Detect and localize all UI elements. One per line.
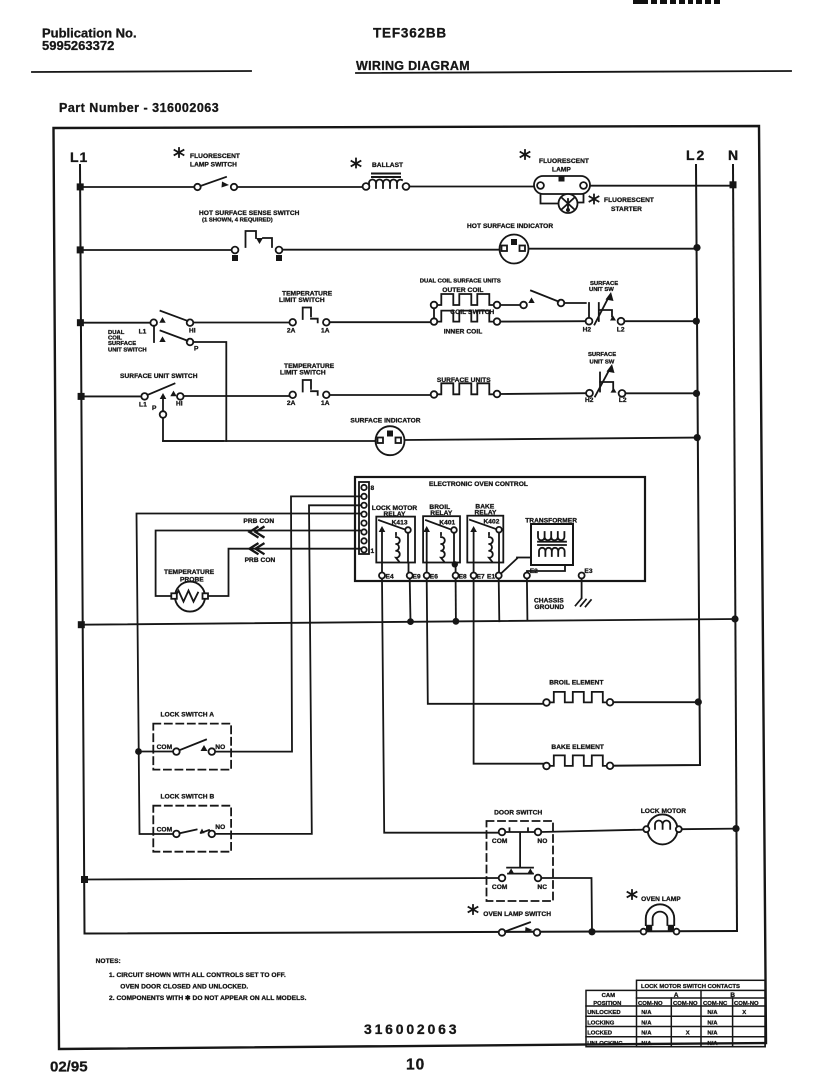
svg-text:BALLAST: BALLAST xyxy=(372,162,403,169)
svg-text:2A: 2A xyxy=(287,328,296,335)
svg-text:HI: HI xyxy=(176,401,183,408)
svg-text:COM: COM xyxy=(157,827,173,834)
svg-text:2. COMPONENTS WITH ✱ DO NOT AP: 2. COMPONENTS WITH ✱ DO NOT APPEAR ON AL… xyxy=(109,994,307,1002)
lock switch B xyxy=(153,794,231,852)
wire pin1 PRB CON lower to probe xyxy=(208,549,361,596)
svg-text:L2: L2 xyxy=(686,147,706,163)
wire E1 stub to bus xyxy=(498,579,501,622)
svg-text:UNIT SW: UNIT SW xyxy=(590,360,615,366)
wire L1 bus vertical xyxy=(80,165,737,934)
lock motor M1 xyxy=(641,808,736,845)
EOC connector strip P1 xyxy=(359,482,369,554)
wire row1 fluorescent circuit xyxy=(80,186,733,187)
svg-text:UNLOCKED: UNLOCKED xyxy=(587,1010,620,1016)
outer coil element xyxy=(437,294,494,305)
svg-text:N/A: N/A xyxy=(641,1020,652,1026)
wire door NC to bottom bus xyxy=(541,878,592,932)
svg-text:OUTER COIL: OUTER COIL xyxy=(442,287,483,294)
svg-text:COM-NO: COM-NO xyxy=(673,1001,698,1007)
svg-text:UNLOCKING: UNLOCKING xyxy=(587,1041,623,1047)
svg-text:P: P xyxy=(194,346,199,353)
svg-text:X: X xyxy=(742,1010,746,1016)
wire E7 down to bake element xyxy=(474,579,547,764)
svg-text:E3: E3 xyxy=(584,568,592,575)
wire E9 stub to bus xyxy=(409,579,412,622)
transformer T2 xyxy=(517,518,577,566)
svg-text:NC: NC xyxy=(537,884,547,891)
svg-text:SURFACE INDICATOR: SURFACE INDICATOR xyxy=(350,418,420,425)
bake element xyxy=(543,744,613,769)
junction dots L1 xyxy=(77,183,88,883)
svg-text:UNIT SW: UNIT SW xyxy=(589,287,614,293)
svg-text:N/A: N/A xyxy=(707,1010,718,1016)
svg-text:OVEN DOOR CLOSED AND UNLOCKED.: OVEN DOOR CLOSED AND UNLOCKED. xyxy=(120,984,248,991)
svg-text:L1: L1 xyxy=(70,149,88,165)
wire E8 stub to bus xyxy=(453,618,460,625)
broil relay K401 xyxy=(423,504,460,573)
oven lamp switch xyxy=(469,905,552,936)
svg-text:10: 10 xyxy=(406,1057,425,1074)
svg-text:FLUORESCENT: FLUORESCENT xyxy=(539,158,589,165)
surface unit switch (row4) xyxy=(120,373,198,418)
svg-text:E1: E1 xyxy=(487,574,495,581)
junction dots L2 xyxy=(693,244,702,706)
dual coil surface units heater elements xyxy=(420,279,565,336)
lock motor relay K413 xyxy=(372,505,418,573)
PRB CON chevrons lower xyxy=(250,544,264,554)
svg-text:COM: COM xyxy=(492,884,508,891)
svg-text:L2: L2 xyxy=(617,327,625,334)
svg-text:P: P xyxy=(152,405,157,412)
svg-text:E4: E4 xyxy=(386,574,394,581)
electronic oven control box U1 xyxy=(355,477,645,581)
svg-text:PRB CON: PRB CON xyxy=(243,518,274,525)
junction dot E9 bus xyxy=(407,618,414,625)
svg-text:HOT SURFACE SENSE SWITCH: HOT SURFACE SENSE SWITCH xyxy=(199,210,300,217)
surface indicator lamp xyxy=(350,418,420,456)
svg-text:H2: H2 xyxy=(583,327,592,334)
wire pin5 down left side to lock switch B COM xyxy=(137,514,362,835)
wire E2 to transformer xyxy=(527,565,565,573)
svg-text:1. CIRCUIT SHOWN WITH ALL CONT: 1. CIRCUIT SHOWN WITH ALL CONTROLS SET T… xyxy=(109,972,286,979)
svg-text:N/A: N/A xyxy=(707,1041,718,1047)
svg-text:TEF362BB: TEF362BB xyxy=(373,26,447,41)
svg-text:N/A: N/A xyxy=(707,1020,718,1026)
svg-text:UNIT SWITCH: UNIT SWITCH xyxy=(108,348,147,354)
svg-text:B: B xyxy=(730,992,735,999)
svg-text:02/95: 02/95 xyxy=(50,1059,88,1076)
fluorescent starter xyxy=(559,194,655,213)
wire E2 stub to bus xyxy=(526,579,529,620)
broil element xyxy=(543,680,695,706)
door switch xyxy=(487,810,554,901)
svg-text:STARTER: STARTER xyxy=(611,206,642,213)
junction dot bottom bus xyxy=(588,928,595,935)
svg-text:HI: HI xyxy=(189,328,196,335)
bake relay K402 xyxy=(467,504,503,573)
svg-text:E6: E6 xyxy=(430,574,438,581)
svg-text:PRB CON: PRB CON xyxy=(245,557,276,564)
PRB CON chevrons upper xyxy=(250,527,264,537)
svg-text:LIMIT SWITCH: LIMIT SWITCH xyxy=(279,297,325,304)
svg-text:FLUORESCENT: FLUORESCENT xyxy=(604,197,654,204)
svg-text:E9: E9 xyxy=(413,574,421,581)
svg-text:NO: NO xyxy=(215,824,225,831)
lock motor switch contacts table xyxy=(586,980,765,1047)
svg-text:COM: COM xyxy=(492,838,508,845)
svg-text:GROUND: GROUND xyxy=(535,604,565,611)
svg-text:LOCK MOTOR SWITCH CONTACTS: LOCK MOTOR SWITCH CONTACTS xyxy=(641,984,740,990)
page border xyxy=(54,126,767,1049)
svg-text:N/A: N/A xyxy=(641,1041,652,1047)
header rule left xyxy=(32,71,251,72)
svg-text:FLUORESCENT: FLUORESCENT xyxy=(190,153,240,160)
svg-text:E8: E8 xyxy=(459,574,467,581)
svg-text:COM-NO: COM-NO xyxy=(638,1001,663,1007)
svg-text:E7: E7 xyxy=(477,574,485,581)
svg-text:LAMP SWITCH: LAMP SWITCH xyxy=(190,162,237,169)
svg-text:OVEN LAMP: OVEN LAMP xyxy=(641,896,681,903)
svg-text:SURFACE: SURFACE xyxy=(588,352,616,358)
svg-text:H2: H2 xyxy=(585,397,594,404)
wire row3 dual coil xyxy=(80,321,696,323)
svg-text:LIMIT SWITCH: LIMIT SWITCH xyxy=(280,370,326,377)
svg-text:HOT SURFACE INDICATOR: HOT SURFACE INDICATOR xyxy=(467,223,553,230)
svg-text:(1 SHOWN, 4 REQUIRED): (1 SHOWN, 4 REQUIRED) xyxy=(202,218,273,224)
svg-text:N: N xyxy=(728,147,738,163)
svg-text:1: 1 xyxy=(371,548,375,555)
wire row2 hot surface sense xyxy=(80,249,697,250)
svg-text:Part Number - 316002063: Part Number - 316002063 xyxy=(59,101,219,115)
svg-text:X: X xyxy=(686,1031,690,1037)
wire E3 to chassis ground xyxy=(581,579,583,599)
svg-text:L1: L1 xyxy=(139,402,147,409)
wire E6 down to broil element xyxy=(427,579,544,704)
svg-text:LOCK SWITCH A: LOCK SWITCH A xyxy=(161,712,215,719)
row4 temperature limit switch xyxy=(280,363,335,407)
surface units heater element (row4) xyxy=(431,377,501,398)
svg-text:N/A: N/A xyxy=(641,1031,652,1037)
junction dots N xyxy=(730,181,740,832)
dual coil surface unit switch xyxy=(108,311,226,441)
svg-text:N/A: N/A xyxy=(707,1031,718,1037)
svg-text:LOCKED: LOCKED xyxy=(587,1031,612,1037)
svg-text:2A: 2A xyxy=(287,400,296,407)
svg-text:LOCK SWITCH B: LOCK SWITCH B xyxy=(161,794,215,801)
svg-text:316002063: 316002063 xyxy=(364,1021,459,1037)
partial logo fragment top right xyxy=(633,0,720,4)
surface unit SW (row3 infinite switch) xyxy=(564,281,625,334)
svg-text:BROIL ELEMENT: BROIL ELEMENT xyxy=(549,680,603,687)
svg-text:DOOR SWITCH: DOOR SWITCH xyxy=(494,810,542,817)
svg-text:DUAL COIL SURFACE UNITS: DUAL COIL SURFACE UNITS xyxy=(420,279,501,285)
wire pin6 to lock switch B NO xyxy=(216,505,361,834)
hot surface sense switch xyxy=(199,210,300,261)
ballast T1 xyxy=(352,159,410,190)
svg-text:CAM: CAM xyxy=(602,993,616,999)
wire L2 bus vertical xyxy=(610,165,700,766)
junction dot lock A tap xyxy=(135,748,142,755)
svg-text:8: 8 xyxy=(371,485,375,492)
svg-text:1A: 1A xyxy=(321,400,330,407)
svg-text:1A: 1A xyxy=(321,328,330,335)
svg-text:N/A: N/A xyxy=(641,1010,652,1016)
fluorescent lamp switch SW1 xyxy=(175,148,241,190)
svg-text:NOTES:: NOTES: xyxy=(96,958,121,965)
svg-text:POSITION: POSITION xyxy=(593,1001,621,1007)
lock switch A xyxy=(153,712,231,770)
svg-text:SURFACE: SURFACE xyxy=(108,341,136,347)
svg-text:A: A xyxy=(674,992,679,999)
header rule right / underline xyxy=(356,71,791,73)
svg-text:ELECTRONIC OVEN CONTROL: ELECTRONIC OVEN CONTROL xyxy=(429,481,528,488)
svg-text:NO: NO xyxy=(537,838,547,845)
wire pin7 to lock switch A NO xyxy=(215,496,361,751)
svg-text:NO: NO xyxy=(215,744,225,751)
wire pin3 PRB CON upper to probe xyxy=(156,531,361,597)
surface unit SW (row4 infinite switch) xyxy=(585,352,627,404)
svg-text:LAMP: LAMP xyxy=(552,167,571,174)
terminals E4 E9 E6 E8 E7 E1 E2 E3 xyxy=(379,573,585,579)
svg-text:INNER COIL: INNER COIL xyxy=(444,328,483,335)
wire E4 down to door switch xyxy=(382,579,500,833)
svg-text:COM: COM xyxy=(157,744,173,751)
svg-text:SURFACE UNIT SWITCH: SURFACE UNIT SWITCH xyxy=(120,373,198,380)
hot surface indicator lamp xyxy=(467,223,553,264)
svg-text:BAKE ELEMENT: BAKE ELEMENT xyxy=(551,744,604,751)
svg-text:TEMPERATURE: TEMPERATURE xyxy=(164,569,215,576)
wire row5 surface indicator xyxy=(163,438,697,441)
svg-text:OVEN LAMP SWITCH: OVEN LAMP SWITCH xyxy=(483,911,551,918)
svg-text:COM-NO: COM-NO xyxy=(734,1001,759,1007)
row3 temperature limit switch xyxy=(279,291,333,326)
svg-text:LOCKING: LOCKING xyxy=(587,1020,615,1026)
svg-text:5995263372: 5995263372 xyxy=(42,38,114,53)
svg-text:K402: K402 xyxy=(484,519,500,526)
wire door NO to lock motor xyxy=(541,830,646,832)
svg-text:COIL SWITCH: COIL SWITCH xyxy=(450,309,494,316)
wire bus y620 L1 to N xyxy=(81,619,735,625)
fluorescent lamp LAMP1 xyxy=(521,150,591,204)
wire E1 to transformer xyxy=(501,559,517,574)
wire N bus vertical xyxy=(733,165,737,931)
wire L1 to door switch COM lower xyxy=(85,878,500,880)
svg-text:L2: L2 xyxy=(619,397,627,404)
svg-text:WIRING DIAGRAM: WIRING DIAGRAM xyxy=(356,59,470,73)
wire row4 surface unit xyxy=(81,393,696,396)
svg-text:COM-NC: COM-NC xyxy=(703,1001,728,1007)
svg-text:L1: L1 xyxy=(139,329,147,336)
wire lock A COM tap xyxy=(139,751,174,753)
inner coil element xyxy=(437,311,494,322)
oven lamp xyxy=(628,890,682,934)
